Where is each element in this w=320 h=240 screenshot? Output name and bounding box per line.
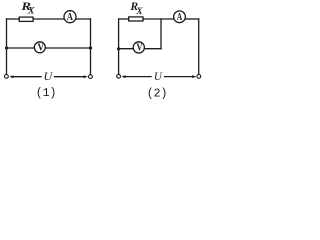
- voltmeter V (circuit 2): [133, 42, 144, 53]
- svg-text:U: U: [154, 69, 163, 83]
- resistor R2 (Rx of circuit 2): [129, 17, 143, 21]
- ammeter A (circuit 2): [174, 11, 186, 23]
- wire: circuit 2 voltmeter to stub: [144, 48, 161, 50]
- label Rx (circuit 2): [129, 0, 143, 16]
- resistor R1 (Rx of circuit 1): [19, 17, 33, 21]
- wire: circuit 1 ammeter to right corner: [76, 18, 91, 20]
- terminal: circuit 1 left: [5, 75, 9, 79]
- junction: circuit 1 left middle node: [5, 46, 8, 49]
- label (2): [147, 88, 168, 101]
- arrow: U dimension left (circuit 2): [121, 75, 151, 78]
- label (1): [36, 87, 57, 100]
- wire: circuit 1 resistor to ammeter: [33, 18, 64, 20]
- svg-text:A: A: [67, 12, 74, 23]
- label U (circuit 1): [44, 69, 54, 83]
- arrow: U dimension right (circuit 2): [165, 75, 197, 78]
- wire: circuit 2 resistor to ammeter: [143, 18, 174, 20]
- svg-text:U: U: [44, 69, 54, 83]
- svg-text:X: X: [136, 6, 144, 16]
- wire: circuit 1 voltmeter to right vertical: [45, 47, 90, 49]
- svg-text:(2): (2): [147, 88, 168, 101]
- wire: circuit 1 left vertical: [6, 19, 8, 74]
- wire: circuit 2 ammeter to right corner: [185, 18, 199, 20]
- arrow: U dimension right (circuit 1): [55, 75, 88, 78]
- terminal: circuit 2 left: [117, 74, 121, 78]
- wire: circuit 2 left vertical: [118, 19, 120, 74]
- wire: circuit 2 middle-left to voltmeter: [119, 48, 134, 50]
- wire: circuit 1 middle-left to voltmeter: [7, 47, 35, 49]
- svg-text:(1): (1): [36, 87, 57, 100]
- svg-text:V: V: [136, 43, 143, 54]
- terminal: circuit 1 right: [89, 75, 93, 79]
- junction: circuit 2 left middle node: [117, 47, 120, 50]
- svg-text:V: V: [38, 43, 45, 54]
- wire: circuit 1 right vertical: [90, 19, 92, 74]
- terminal: circuit 2 right: [197, 75, 201, 79]
- arrow: U dimension left (circuit 1): [9, 75, 41, 78]
- label Rx (circuit 1): [20, 0, 35, 16]
- wire: circuit 2 right vertical: [198, 19, 200, 74]
- svg-text:A: A: [177, 12, 183, 23]
- voltmeter V (circuit 1): [34, 42, 45, 53]
- wire: circuit 2 voltmeter tap stub (node between Rx and A): [160, 19, 162, 49]
- wire: circuit 1 top-left segment: [7, 18, 20, 20]
- svg-text:X: X: [27, 6, 36, 16]
- junction: circuit 1 right middle node: [89, 46, 92, 49]
- ammeter A (circuit 1): [64, 11, 76, 23]
- label U (circuit 2): [154, 69, 163, 83]
- wire: circuit 2 top-left segment: [119, 18, 129, 20]
